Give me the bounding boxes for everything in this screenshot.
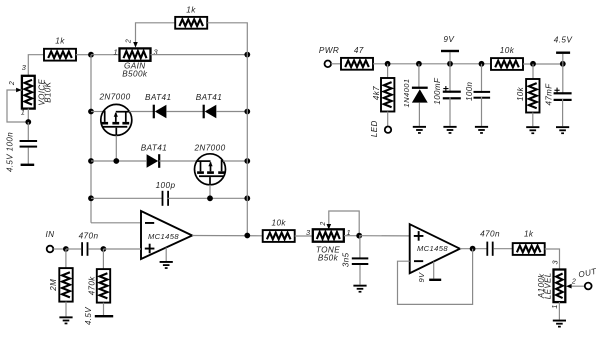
capacitor 100mF electrolytic bbox=[433, 77, 461, 105]
wire 100n to ground bbox=[481, 97, 483, 126]
pin 1 label (GAIN) bbox=[113, 47, 118, 56]
node junction input A bbox=[63, 246, 69, 252]
power stem 9V rail bbox=[441, 35, 459, 64]
svg-text:2: 2 bbox=[320, 221, 327, 226]
wire junction to 470n bbox=[66, 248, 81, 250]
wire junction B to opamp1 noninverting input bbox=[103, 248, 141, 250]
resistor 47 bbox=[341, 46, 373, 70]
wire mosfet to BAT41 bbox=[129, 111, 153, 113]
wire junction to 100n cap bbox=[27, 122, 29, 141]
wire 100mF column bbox=[449, 64, 451, 93]
diode BAT41 (row1 left) bbox=[145, 93, 171, 118]
svg-text:B500k: B500k bbox=[122, 69, 148, 78]
resistor 1k (input series) bbox=[44, 37, 76, 61]
svg-text:47: 47 bbox=[354, 46, 364, 55]
node junction opamp2 output bbox=[470, 246, 476, 252]
ground (100mF) bbox=[443, 126, 456, 134]
ground (LEVEL) bbox=[553, 320, 566, 328]
wire 47 to power rail bbox=[373, 63, 492, 65]
wire LEVEL pin1 to ground bbox=[558, 302, 560, 320]
capacitor 470n (input) bbox=[79, 232, 99, 256]
terminal LED bbox=[370, 120, 391, 137]
op-amp U1 MC1458 bbox=[141, 211, 192, 259]
terminal IN bbox=[46, 230, 55, 252]
svg-text:3n5: 3n5 bbox=[342, 252, 351, 267]
svg-text:2N7000: 2N7000 bbox=[98, 93, 130, 102]
wire row2 left bbox=[91, 160, 146, 162]
potentiometer TONE B50k bbox=[313, 229, 344, 262]
node junction 47mF bbox=[560, 61, 566, 67]
wire GAIN pin3 to right rail bbox=[151, 54, 248, 56]
svg-text:1: 1 bbox=[21, 108, 26, 117]
node junction 4k7 bbox=[385, 61, 391, 67]
svg-text:BAT41: BAT41 bbox=[196, 93, 222, 102]
wire 470n to junction B bbox=[89, 248, 104, 250]
wire opamp1 output bbox=[192, 235, 263, 237]
svg-text:B50k: B50k bbox=[318, 253, 339, 262]
wire row3 left to 100p bbox=[91, 197, 163, 199]
potentiometer VOICE B10K bbox=[22, 76, 52, 109]
svg-text:LED: LED bbox=[370, 120, 379, 137]
wire 47mF to ground bbox=[562, 99, 564, 126]
pin 3 label (LEVEL) bbox=[551, 259, 560, 264]
ground (100n) bbox=[475, 126, 488, 134]
svg-text:3: 3 bbox=[22, 63, 27, 72]
resistor 10k (interstage) bbox=[263, 219, 295, 242]
wire VOICE pin3 to 1k resistor bbox=[28, 55, 44, 77]
svg-text:1k: 1k bbox=[186, 6, 196, 15]
svg-text:2M: 2M bbox=[49, 279, 58, 292]
ground (1N4001) bbox=[413, 126, 426, 134]
capacitor 100p bbox=[156, 181, 176, 206]
svg-text:1: 1 bbox=[113, 47, 118, 56]
svg-text:9V: 9V bbox=[443, 35, 455, 44]
potentiometer GAIN B500k bbox=[120, 48, 151, 78]
op-amp U2 MC1458 bbox=[410, 224, 460, 273]
transistor 2N7000 (upper clipper) bbox=[98, 93, 131, 136]
resistor 4k7 bbox=[372, 78, 395, 112]
node junction left rail row3 bbox=[88, 195, 94, 201]
pin 3 label (TONE) bbox=[306, 228, 311, 237]
wire 100n column bbox=[481, 64, 483, 93]
wire BAT41 to mosfet2 bbox=[159, 160, 197, 162]
wire 10k to TONE pin3 bbox=[295, 235, 313, 237]
potentiometer LEVEL A100k bbox=[537, 270, 566, 303]
node junction right rail gain row bbox=[244, 52, 250, 58]
ground (op-amp U1) bbox=[160, 248, 173, 269]
resistor 1k (output) bbox=[513, 229, 545, 255]
svg-text:100p: 100p bbox=[156, 181, 176, 190]
wire mosfet2 gate lead down bbox=[209, 185, 211, 199]
wire 3n5 to ground bbox=[359, 265, 361, 285]
diode BAT41 (row1 right) bbox=[196, 93, 222, 118]
wire 1N4001 column bbox=[418, 64, 420, 87]
wire 1k feedback to right rail bbox=[207, 23, 247, 55]
svg-text:2N7000: 2N7000 bbox=[193, 144, 225, 153]
capacitor 47mF electrolytic bbox=[545, 83, 572, 106]
svg-text:4.5V: 4.5V bbox=[84, 307, 93, 325]
node junction opamp1 output bbox=[244, 233, 250, 239]
wire 10k to ground bbox=[532, 113, 534, 127]
pin 1 label (TONE) bbox=[347, 228, 352, 237]
power rail bar 4.5V (voice) bbox=[21, 164, 35, 166]
pin 3 label (VOICE) bbox=[22, 63, 27, 72]
wire 100n to 4.5V bar bbox=[27, 148, 29, 165]
wire 4k7 to LED bbox=[387, 112, 389, 127]
wire mosfet1 gate lead down bbox=[115, 135, 117, 161]
wire left rail bbox=[90, 55, 92, 223]
svg-text:3: 3 bbox=[551, 259, 560, 264]
svg-text:BAT41: BAT41 bbox=[145, 93, 171, 102]
svg-text:2: 2 bbox=[125, 39, 132, 44]
pin 1 label (VOICE) bbox=[21, 108, 26, 117]
wire 1k to LEVEL pin3 bbox=[545, 249, 560, 270]
resistor 470k bbox=[88, 269, 111, 303]
svg-text:IN: IN bbox=[46, 230, 55, 239]
capacitor 100n (9V filter) bbox=[465, 81, 490, 101]
diode BAT41 (row2) bbox=[141, 144, 167, 168]
ground (47mF) bbox=[556, 126, 569, 134]
svg-text:10k: 10k bbox=[500, 46, 515, 55]
wire TONE pin1 to junction bbox=[344, 235, 359, 237]
svg-text:PWR: PWR bbox=[319, 46, 339, 55]
wire BAT41 to right rail row1 bbox=[216, 111, 247, 113]
svg-text:3: 3 bbox=[306, 228, 311, 237]
wire 47mF column bbox=[562, 64, 564, 95]
wire opamp2 output bbox=[460, 248, 487, 250]
node junction TONE output bbox=[356, 233, 362, 239]
svg-text:B10K: B10K bbox=[43, 81, 52, 102]
pin 2 label (LEVEL wiper) bbox=[571, 279, 576, 286]
wire 1N4001 to ground bbox=[418, 103, 420, 126]
wire right rail bbox=[246, 55, 248, 236]
wiper wire TONE bbox=[327, 211, 360, 236]
svg-text:MC1458: MC1458 bbox=[417, 244, 448, 253]
node junction left rail row2 bbox=[88, 158, 94, 164]
wire between BAT41 diodes row1 bbox=[166, 111, 203, 113]
wire IN to junction bbox=[53, 248, 66, 250]
wire 100p to right rail row3 bbox=[168, 197, 248, 199]
svg-text:2: 2 bbox=[571, 279, 576, 286]
power stem 9V (op-amp U2) bbox=[417, 262, 441, 283]
node junction row2 mosfet lead bbox=[113, 158, 119, 164]
wire 2M to ground bbox=[65, 302, 67, 317]
resistor 1k (feedback top) bbox=[175, 6, 207, 29]
diode 1N4001 bbox=[402, 78, 428, 107]
wiper wire VOICE bbox=[7, 88, 28, 122]
wire feedback loop opamp2 bbox=[398, 249, 473, 305]
svg-text:470n: 470n bbox=[79, 232, 99, 241]
resistor 10k (vref divider bottom) bbox=[516, 79, 539, 113]
wire VOICE pin1 to junction bbox=[27, 109, 29, 122]
node junction 100n bbox=[479, 61, 485, 67]
svg-text:BAT41: BAT41 bbox=[141, 144, 167, 153]
ground (2M) bbox=[59, 316, 72, 324]
transistor 2N7000 (lower clipper) bbox=[193, 144, 225, 185]
node junction input B bbox=[101, 246, 107, 252]
svg-text:LEVEL: LEVEL bbox=[543, 272, 552, 299]
svg-text:4.5V: 4.5V bbox=[554, 36, 574, 45]
svg-text:1k: 1k bbox=[524, 229, 534, 238]
wiper wire GAIN (from 1k feedback) bbox=[133, 23, 175, 48]
pin 2 label (TONE wiper) bbox=[320, 221, 327, 226]
wire 4k7 column bbox=[387, 64, 389, 78]
wire row1 to mosfet bbox=[91, 111, 104, 113]
svg-text:9V: 9V bbox=[417, 272, 426, 283]
node junction right rail row3 bbox=[244, 195, 250, 201]
node junction left rail row1 bbox=[88, 109, 94, 115]
svg-text:47mF: 47mF bbox=[545, 83, 554, 106]
wire 10k vertical column bbox=[532, 64, 534, 80]
svg-text:10k: 10k bbox=[271, 219, 286, 228]
ground (10k vref) bbox=[526, 126, 539, 134]
wire junction to GAIN pin1 bbox=[91, 54, 120, 56]
svg-text:10k: 10k bbox=[516, 86, 525, 101]
svg-text:MC1458: MC1458 bbox=[148, 232, 179, 241]
capacitor 3n5 bbox=[342, 252, 369, 267]
pin 3 label (GAIN) bbox=[153, 47, 158, 56]
wire 10k to 4.5V node bbox=[523, 63, 563, 65]
wiper wire LEVEL bbox=[566, 284, 585, 289]
terminal PWR bbox=[319, 46, 339, 67]
svg-text:4k7: 4k7 bbox=[372, 86, 381, 100]
wire 470k to 4.5V bar bbox=[103, 303, 105, 316]
wire TONE junction to opamp2 bbox=[359, 235, 410, 237]
pin 2 label (VOICE wiper) bbox=[9, 81, 16, 86]
wire 100mF to ground bbox=[449, 97, 451, 126]
node junction 10k vertical bbox=[530, 61, 536, 67]
node junction left rail top bbox=[88, 52, 94, 58]
wire junction B down bbox=[102, 249, 104, 269]
ground (3n5) bbox=[353, 285, 366, 293]
svg-text:1N4001: 1N4001 bbox=[402, 78, 411, 107]
svg-text:100n: 100n bbox=[465, 81, 474, 101]
pin 1 label (LEVEL) bbox=[550, 304, 559, 309]
svg-text:100mF: 100mF bbox=[433, 77, 442, 105]
svg-text:2: 2 bbox=[9, 81, 16, 86]
svg-text:1k: 1k bbox=[55, 37, 65, 46]
node junction row3 mosfet lead bbox=[207, 195, 213, 201]
pin 2 label (GAIN wiper) bbox=[125, 39, 132, 44]
wire left rail to opamp1 inverting input bbox=[91, 222, 141, 224]
capacitor 100n (voice) bbox=[5, 132, 37, 172]
resistor 10k (vref divider top) bbox=[491, 46, 523, 70]
svg-text:470n: 470n bbox=[480, 229, 500, 238]
wire mosfet2 to right rail row2 bbox=[223, 160, 247, 162]
power stem 4.5V rail bbox=[554, 36, 574, 64]
terminal OUT bbox=[578, 267, 599, 290]
node junction 1N4001 bbox=[416, 61, 422, 67]
wire TONE junction down to 3n5 bbox=[359, 236, 361, 259]
svg-text:1: 1 bbox=[550, 304, 559, 309]
node junction 9V bbox=[447, 61, 453, 67]
capacitor 470n (output) bbox=[480, 229, 500, 255]
node junction right rail row1 bbox=[244, 109, 250, 115]
resistor 2M bbox=[49, 268, 73, 302]
wire 470n to 1k bbox=[494, 248, 513, 250]
power rail bar 4.5V (input bias) bbox=[84, 307, 113, 325]
wire PWR to 47 bbox=[331, 63, 341, 65]
svg-text:4.5V 100n: 4.5V 100n bbox=[5, 132, 14, 172]
node junction under VOICE bbox=[25, 119, 31, 125]
wire junction A down bbox=[65, 249, 67, 268]
wire 1k to gain row junction bbox=[76, 54, 91, 56]
node junction right rail row2 bbox=[244, 158, 250, 164]
svg-text:470k: 470k bbox=[88, 276, 97, 296]
